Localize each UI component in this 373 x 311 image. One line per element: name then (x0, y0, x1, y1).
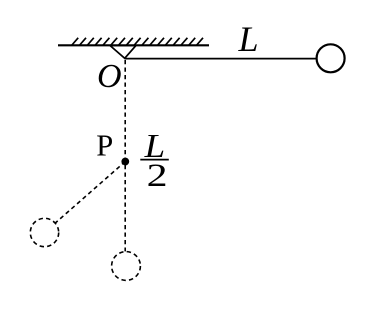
ceiling line (58, 44, 209, 46)
string L (horizontal rod to bob) (125, 58, 317, 60)
pivot wedge at O (110, 46, 136, 59)
dashed bob (left) (30, 218, 58, 246)
fraction bar (140, 159, 169, 161)
svg-text:L: L (238, 19, 259, 59)
dashed swing line P to left bob (55, 162, 125, 224)
dashed vertical line O to bottom bob (124, 60, 126, 251)
peg point P (filled dot) (121, 158, 129, 166)
dashed bob (bottom) (112, 252, 141, 281)
svg-text:O: O (97, 58, 122, 95)
svg-text:2: 2 (147, 157, 168, 194)
ceiling hatching (72, 38, 204, 46)
bob (solid circle, right) (317, 44, 345, 72)
svg-text:P: P (96, 128, 113, 162)
